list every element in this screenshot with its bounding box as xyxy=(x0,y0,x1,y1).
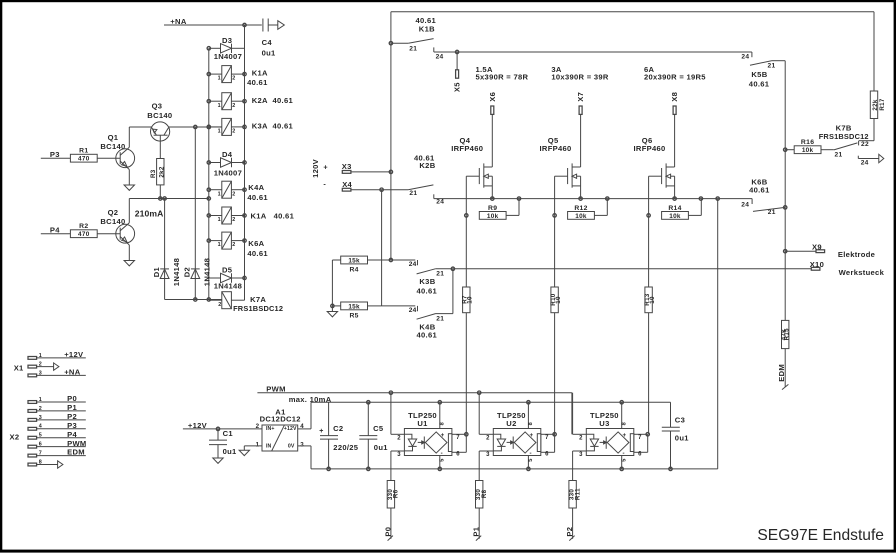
svg-text:40.61: 40.61 xyxy=(247,249,268,258)
svg-text:2: 2 xyxy=(486,436,490,442)
svg-text:U1: U1 xyxy=(417,419,428,428)
svg-text:D4: D4 xyxy=(222,150,233,159)
svg-text:22k: 22k xyxy=(872,99,879,110)
svg-text:+: + xyxy=(623,432,627,439)
svg-text:C2: C2 xyxy=(333,424,343,433)
svg-text:10k: 10k xyxy=(802,147,814,154)
svg-text:K5B: K5B xyxy=(751,70,767,79)
svg-text:7: 7 xyxy=(545,435,549,441)
svg-text:EDM: EDM xyxy=(67,448,85,457)
svg-text:PWM: PWM xyxy=(266,385,285,394)
svg-text:24: 24 xyxy=(409,307,417,314)
svg-text:R6: R6 xyxy=(393,489,400,498)
svg-text:R3: R3 xyxy=(150,169,157,178)
svg-text:21: 21 xyxy=(409,190,417,197)
svg-text:5: 5 xyxy=(622,458,628,461)
svg-text:Q3: Q3 xyxy=(152,101,163,110)
svg-text:2: 2 xyxy=(218,302,221,308)
svg-text:FRS1BSDC12: FRS1BSDC12 xyxy=(233,304,283,313)
svg-text:FRS1BSDC12: FRS1BSDC12 xyxy=(819,132,869,141)
svg-text:D2: D2 xyxy=(183,267,192,277)
svg-text:R8: R8 xyxy=(481,489,488,498)
svg-text:K1B: K1B xyxy=(419,25,435,34)
svg-text:24: 24 xyxy=(436,54,444,61)
svg-text:1: 1 xyxy=(218,217,221,223)
svg-text:24: 24 xyxy=(436,198,444,205)
svg-text:2: 2 xyxy=(232,242,235,248)
svg-text:K7A: K7A xyxy=(250,295,266,304)
svg-text:R15: R15 xyxy=(784,328,791,341)
svg-text:EDM: EDM xyxy=(777,364,786,382)
svg-text:P4: P4 xyxy=(67,430,77,439)
svg-text:+: + xyxy=(530,432,534,439)
svg-text:R2: R2 xyxy=(79,223,88,230)
svg-text:D1: D1 xyxy=(152,267,161,278)
svg-text:120V: 120V xyxy=(311,158,320,178)
svg-text:U3: U3 xyxy=(599,419,609,428)
svg-text:R16: R16 xyxy=(801,139,814,146)
svg-text:R1: R1 xyxy=(79,148,88,155)
svg-text:+: + xyxy=(319,428,323,435)
svg-text:40.61: 40.61 xyxy=(247,78,268,87)
svg-text:C3: C3 xyxy=(675,416,685,425)
svg-text:X8: X8 xyxy=(670,92,679,102)
svg-text:K2B: K2B xyxy=(419,161,435,170)
svg-text:3: 3 xyxy=(397,452,401,458)
svg-text:0u1: 0u1 xyxy=(223,447,237,456)
svg-text:1N4007: 1N4007 xyxy=(214,168,242,177)
svg-text:1: 1 xyxy=(218,76,221,82)
svg-text:P1: P1 xyxy=(472,526,481,536)
svg-text:C4: C4 xyxy=(262,38,273,47)
svg-text:+12V: +12V xyxy=(284,426,297,432)
svg-text:15k: 15k xyxy=(348,257,360,264)
svg-text:24: 24 xyxy=(741,201,749,208)
svg-text:X2: X2 xyxy=(10,433,20,442)
svg-text:1: 1 xyxy=(256,441,260,448)
svg-text:SEG97E Endstufe: SEG97E Endstufe xyxy=(757,527,884,544)
svg-text:2: 2 xyxy=(579,436,583,442)
svg-text:+: + xyxy=(323,162,328,171)
svg-text:8: 8 xyxy=(440,422,446,425)
svg-text:K6A: K6A xyxy=(248,239,264,248)
svg-text:3: 3 xyxy=(486,452,490,458)
svg-text:K1A: K1A xyxy=(251,211,267,220)
svg-text:1N4007: 1N4007 xyxy=(214,52,242,61)
svg-text:K2A: K2A xyxy=(252,96,268,105)
svg-text:IN: IN xyxy=(266,443,272,449)
svg-text:D5: D5 xyxy=(222,265,233,274)
svg-text:-: - xyxy=(623,450,625,457)
svg-text:1N4148: 1N4148 xyxy=(214,281,242,290)
svg-text:X5: X5 xyxy=(453,82,462,92)
svg-text:K3B: K3B xyxy=(419,277,435,286)
svg-text:C5: C5 xyxy=(373,424,384,433)
svg-text:Werkstueck: Werkstueck xyxy=(839,268,885,277)
svg-text:-: - xyxy=(323,179,326,188)
svg-text:X3: X3 xyxy=(342,162,352,171)
svg-text:10: 10 xyxy=(555,296,562,304)
svg-text:R4: R4 xyxy=(349,266,358,273)
svg-text:X1: X1 xyxy=(14,363,24,372)
svg-text:8: 8 xyxy=(528,422,534,425)
svg-text:R12: R12 xyxy=(574,205,587,212)
svg-text:X10: X10 xyxy=(810,260,824,269)
svg-text:21: 21 xyxy=(768,209,776,216)
svg-text:DC12DC12: DC12DC12 xyxy=(260,415,301,424)
svg-text:3: 3 xyxy=(579,452,583,458)
svg-text:+NA: +NA xyxy=(64,368,81,377)
svg-text:3: 3 xyxy=(300,441,304,448)
svg-text:10: 10 xyxy=(467,296,474,304)
svg-text:IRFP460: IRFP460 xyxy=(540,144,572,153)
svg-text:1N4148: 1N4148 xyxy=(172,258,181,286)
svg-text:21: 21 xyxy=(436,271,444,278)
svg-text:5: 5 xyxy=(440,458,446,461)
svg-text:Q1: Q1 xyxy=(108,133,119,142)
svg-text:40.61: 40.61 xyxy=(417,286,438,295)
svg-text:10k: 10k xyxy=(669,213,681,220)
svg-text:22: 22 xyxy=(861,141,869,148)
svg-text:K3A: K3A xyxy=(252,122,268,131)
svg-text:40.61: 40.61 xyxy=(749,186,770,195)
svg-text:220/25: 220/25 xyxy=(333,443,359,452)
svg-text:15k: 15k xyxy=(348,303,360,310)
svg-text:2: 2 xyxy=(232,76,235,82)
svg-text:BC140: BC140 xyxy=(147,111,172,120)
svg-text:U2: U2 xyxy=(506,419,516,428)
svg-text:+12V: +12V xyxy=(188,421,208,430)
svg-text:K1A: K1A xyxy=(252,69,268,78)
svg-text:R5: R5 xyxy=(349,312,358,319)
svg-text:R17: R17 xyxy=(879,98,886,111)
svg-text:10: 10 xyxy=(649,296,656,304)
svg-text:210mA: 210mA xyxy=(135,208,164,218)
svg-text:P2: P2 xyxy=(67,412,77,421)
svg-text:5x390R = 78R: 5x390R = 78R xyxy=(476,72,529,81)
svg-text:+12V: +12V xyxy=(64,350,84,359)
svg-text:24: 24 xyxy=(741,53,749,60)
svg-text:Q2: Q2 xyxy=(108,208,119,217)
svg-text:10k: 10k xyxy=(487,213,499,220)
svg-text:PWM: PWM xyxy=(67,439,86,448)
svg-text:0u1: 0u1 xyxy=(262,48,276,57)
svg-text:2: 2 xyxy=(232,217,235,223)
svg-text:0u1: 0u1 xyxy=(374,443,388,452)
svg-text:2: 2 xyxy=(256,423,260,430)
svg-text:6: 6 xyxy=(638,452,642,458)
svg-text:6: 6 xyxy=(545,452,549,458)
svg-text:20x390R = 19R5: 20x390R = 19R5 xyxy=(644,72,706,81)
svg-text:IN+: IN+ xyxy=(266,426,275,432)
svg-text:D3: D3 xyxy=(222,36,232,45)
svg-text:2: 2 xyxy=(232,191,235,197)
svg-text:40.61: 40.61 xyxy=(274,211,295,220)
svg-text:7: 7 xyxy=(638,435,642,441)
svg-text:24: 24 xyxy=(409,261,417,268)
svg-text:1: 1 xyxy=(218,103,221,109)
svg-text:-: - xyxy=(530,450,532,457)
svg-text:1N4148: 1N4148 xyxy=(203,258,212,286)
svg-text:10k: 10k xyxy=(575,213,587,220)
svg-text:C1: C1 xyxy=(223,429,234,438)
svg-text:+NA: +NA xyxy=(170,17,187,26)
svg-text:IRFP460: IRFP460 xyxy=(634,144,666,153)
svg-text:1: 1 xyxy=(218,129,221,135)
svg-text:24: 24 xyxy=(861,159,869,166)
svg-text:P4: P4 xyxy=(50,226,60,235)
svg-text:40.61: 40.61 xyxy=(273,122,294,131)
svg-text:21: 21 xyxy=(436,315,444,322)
svg-text:R9: R9 xyxy=(488,205,497,212)
svg-text:0V: 0V xyxy=(288,443,295,449)
svg-text:2: 2 xyxy=(397,436,401,442)
svg-text:X9: X9 xyxy=(812,242,822,251)
svg-text:P0: P0 xyxy=(67,394,77,403)
svg-text:0u1: 0u1 xyxy=(675,434,689,443)
svg-text:2k2: 2k2 xyxy=(158,166,165,177)
svg-text:P2: P2 xyxy=(565,527,574,537)
svg-text:X6: X6 xyxy=(488,92,497,102)
svg-text:21: 21 xyxy=(409,45,417,52)
svg-text:5: 5 xyxy=(528,458,534,461)
svg-text:40.61: 40.61 xyxy=(417,331,438,340)
svg-text:470: 470 xyxy=(78,231,90,238)
svg-text:R14: R14 xyxy=(668,205,681,212)
svg-text:21: 21 xyxy=(768,63,776,70)
svg-text:40.61: 40.61 xyxy=(247,193,268,202)
svg-text:7: 7 xyxy=(456,435,460,441)
svg-text:1: 1 xyxy=(218,242,221,248)
svg-text:40.61: 40.61 xyxy=(749,80,770,89)
svg-text:P1: P1 xyxy=(67,403,77,412)
svg-text:1: 1 xyxy=(218,191,221,197)
svg-text:470: 470 xyxy=(78,156,90,163)
svg-text:R11: R11 xyxy=(574,488,581,500)
svg-text:-: - xyxy=(441,450,443,457)
svg-text:21: 21 xyxy=(835,152,843,159)
svg-text:2: 2 xyxy=(232,103,235,109)
svg-text:Elektrode: Elektrode xyxy=(838,250,875,259)
svg-text:2: 2 xyxy=(232,129,235,135)
svg-text:X7: X7 xyxy=(576,92,585,102)
svg-text:8: 8 xyxy=(622,422,628,425)
svg-text:40.61: 40.61 xyxy=(273,96,294,105)
svg-text:+: + xyxy=(441,432,445,439)
svg-text:P3: P3 xyxy=(67,421,77,430)
svg-text:P3: P3 xyxy=(50,150,60,159)
svg-text:10x390R = 39R: 10x390R = 39R xyxy=(551,72,609,81)
svg-text:6: 6 xyxy=(456,452,460,458)
svg-text:IRFP460: IRFP460 xyxy=(451,144,483,153)
svg-text:P0: P0 xyxy=(383,527,392,537)
svg-text:K4A: K4A xyxy=(248,183,264,192)
